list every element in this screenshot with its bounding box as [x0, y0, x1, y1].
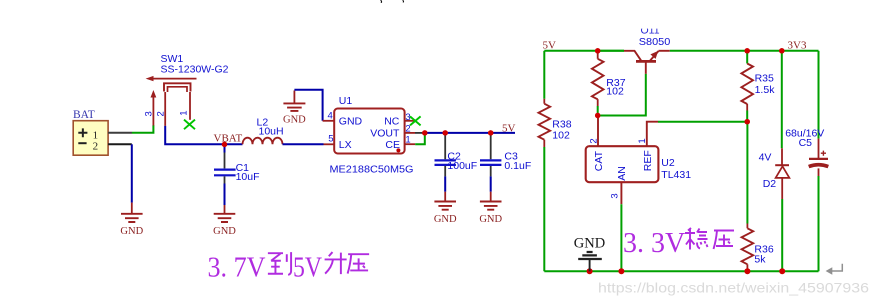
- svg-text:1: 1: [637, 138, 648, 143]
- wire 5V output: [425, 132, 515, 134]
- svg-text:GND: GND: [574, 236, 605, 252]
- capacitor C5 bottom lead: [818, 168, 820, 176]
- regulator U2 TL431 body: [586, 146, 659, 182]
- wire inductor to U1 LX: [283, 143, 324, 145]
- svg-text:TL431: TL431: [661, 169, 691, 181]
- capacitor C3 plates: [480, 160, 501, 165]
- U2 pin 2 CAT lead: [597, 116, 599, 147]
- svg-text:3V3: 3V3: [788, 39, 807, 51]
- hanzi ya (pressure) second: [714, 231, 735, 250]
- svg-text:GND: GND: [283, 114, 306, 125]
- inductor L2: [243, 138, 283, 145]
- U2 pin 3 AN lead: [620, 182, 622, 204]
- node C3 junction (top): [488, 130, 493, 135]
- junction dots top layer: [222, 48, 785, 147]
- node divider (top): [745, 119, 750, 124]
- wire R35 bottom to node: [746, 111, 748, 122]
- svg-text:CAT: CAT: [593, 150, 605, 171]
- capacitor C1 bottom lead: [224, 176, 226, 183]
- wire VBAT to inductor: [225, 143, 243, 145]
- wire BAT pin2 down to GND: [108, 143, 132, 145]
- wire R37 bottom to node: [597, 106, 599, 116]
- switch SW1 body inner bracket: [168, 87, 188, 92]
- svg-text:5k: 5k: [754, 253, 766, 265]
- svg-text:https://blog.csdn.net/weixin_4: https://blog.csdn.net/weixin_45907936: [598, 280, 869, 296]
- svg-text:REF: REF: [642, 150, 654, 171]
- svg-text:R35: R35: [755, 73, 774, 85]
- node D2 top: [779, 48, 784, 53]
- svg-text:GND: GND: [479, 214, 502, 225]
- wire GND to U1 pin 4: [294, 90, 322, 121]
- svg-text:5V: 5V: [543, 39, 557, 51]
- diode D2 cathode bar: [775, 164, 789, 166]
- node R37 top (top): [595, 48, 600, 53]
- svg-text:100uF: 100uF: [447, 160, 477, 172]
- switch SW1 actuator arrow: [153, 78, 197, 80]
- node D2 on rail: [779, 268, 785, 274]
- svg-text:3. 7V: 3. 7V: [208, 253, 266, 284]
- node R35 top (top): [745, 48, 750, 53]
- wire REF to divider node: [658, 121, 747, 123]
- svg-text:U2: U2: [661, 157, 675, 169]
- switch pin 2: [164, 92, 166, 126]
- switch SW1 body outer bracket: [164, 83, 191, 91]
- svg-text:3: 3: [143, 111, 154, 116]
- wire AN to bottom rail: [620, 204, 622, 271]
- return arrow mark: [831, 264, 843, 271]
- transistor Q1 base lead: [645, 61, 647, 73]
- wire bottom rail: [544, 270, 818, 272]
- wire node to transistor base: [598, 74, 646, 116]
- svg-text:3: 3: [610, 193, 621, 198]
- capacitor C5 plates: [809, 158, 828, 160]
- svg-text:5V: 5V: [293, 253, 322, 284]
- node VOUT junction: [422, 130, 427, 135]
- node R35/R36/REF: [745, 119, 750, 124]
- hanzi wen (stable): [685, 228, 708, 250]
- node R35 top: [745, 48, 750, 53]
- battery minus sign: [78, 142, 86, 144]
- svg-text:1: 1: [93, 129, 99, 141]
- capacitor C1 top lead: [224, 144, 226, 152]
- svg-text:GND: GND: [434, 214, 457, 225]
- svg-text:102: 102: [606, 86, 624, 98]
- capacitor C3 top lead: [490, 133, 492, 159]
- U2 pin 1 REF lead: [647, 122, 658, 147]
- wire R38 to bottom rail: [543, 147, 545, 271]
- svg-text:2: 2: [155, 111, 166, 116]
- hanzi ya (pressure) first: [348, 254, 370, 273]
- hanzi sheng (rise): [325, 252, 347, 274]
- capacitor C5 top lead: [818, 51, 820, 139]
- ground GND under C1: [224, 205, 226, 214]
- node C3 junction: [488, 130, 493, 135]
- svg-text:10uF: 10uF: [236, 171, 260, 183]
- hanzi dao (to): [268, 252, 291, 275]
- ground GND under C3: [490, 192, 492, 202]
- resistor R38: [543, 99, 545, 104]
- node D2 top (top): [779, 48, 784, 53]
- resistor R37: [597, 51, 599, 59]
- pin 5 stub: [324, 143, 335, 145]
- switch pin 1: [189, 92, 191, 120]
- transistor Q1 S8050 partial designator: [641, 25, 660, 37]
- capacitor C1 plates: [214, 170, 236, 176]
- svg-text:D2: D2: [763, 178, 777, 190]
- capacitor C3 bottom lead: [490, 166, 492, 176]
- svg-text:0.1uF: 0.1uF: [504, 160, 531, 172]
- wire switch pin2 to VBAT node: [165, 126, 224, 144]
- wire BAT pin1 to switch pin3: [108, 132, 132, 134]
- svg-text:NC: NC: [384, 116, 400, 128]
- svg-text:2: 2: [93, 141, 99, 153]
- capacitor C2 bottom lead: [444, 166, 446, 176]
- svg-text:S8050: S8050: [639, 36, 671, 48]
- svg-text:GND: GND: [120, 226, 143, 237]
- transistor Q1 base bar: [636, 60, 656, 63]
- resistor R35: [746, 51, 748, 64]
- wire 5V down to R38: [543, 51, 545, 99]
- cropped title descender marks: [380, 0, 382, 3]
- svg-text:4V: 4V: [759, 152, 772, 164]
- node VOUT junction (top): [422, 130, 427, 135]
- U1 pin 2 VOUT stub: [405, 132, 415, 134]
- node VBAT junction: [222, 142, 227, 147]
- svg-text:102: 102: [552, 129, 570, 141]
- node VBAT junction (top): [222, 142, 227, 147]
- svg-text:5V: 5V: [502, 122, 516, 134]
- battery BT body: [73, 121, 108, 156]
- diode D2 zener top lead: [781, 51, 783, 149]
- svg-text:1: 1: [179, 111, 190, 116]
- node AN on rail: [618, 268, 624, 274]
- svg-text:5: 5: [328, 134, 333, 145]
- U1 pin 3 stub: [405, 120, 416, 122]
- U1 CE marker dot: [396, 148, 400, 152]
- power GND earth symbol: [578, 252, 602, 259]
- battery plus sign: [78, 128, 87, 137]
- switch pin 3 with arrow: [152, 97, 154, 126]
- node R37 bottom (top): [595, 113, 600, 118]
- ground GND at U1 pin4: [293, 91, 295, 104]
- wire emitter to 3V3 rail: [670, 50, 819, 52]
- wire rail to collector: [598, 50, 624, 52]
- ground GND under battery: [131, 203, 133, 214]
- resistor R36: [746, 122, 748, 224]
- svg-text:1.5k: 1.5k: [755, 84, 776, 96]
- svg-text:AN: AN: [616, 166, 628, 181]
- transistor Q1 collector lead: [624, 51, 642, 61]
- svg-text:U1: U1: [339, 95, 353, 107]
- no-connect X on U1 pin 3: [410, 116, 421, 125]
- svg-text:GND: GND: [339, 116, 363, 128]
- pin 4 stub: [323, 120, 335, 122]
- diode D2 bottom lead: [781, 178, 783, 199]
- capacitor C5 plus sign: [821, 151, 826, 156]
- op-amp U1 ME2188 body: [334, 109, 404, 154]
- node GND on rail: [587, 268, 593, 274]
- node R36 on rail: [744, 268, 750, 274]
- svg-text:ME2188C50M5G: ME2188C50M5G: [330, 164, 414, 176]
- wire 5V rail: [544, 50, 624, 52]
- svg-text:VBAT: VBAT: [214, 132, 243, 144]
- node C2 junction: [443, 130, 448, 135]
- svg-text:C5: C5: [799, 137, 813, 149]
- svg-text:LX: LX: [339, 139, 352, 151]
- no-connect X on switch pin 1: [184, 120, 195, 130]
- U1 pin 1 CE stub: [405, 143, 416, 145]
- svg-text:VOUT: VOUT: [370, 128, 400, 140]
- transistor Q1 emitter lead with arrow: [650, 51, 659, 61]
- capacitor C2 plates: [435, 160, 456, 165]
- svg-text:BAT: BAT: [73, 109, 95, 121]
- node C2 junction (top): [443, 130, 448, 135]
- capacitor C2 top lead: [444, 133, 446, 159]
- caption 3.7V to 5V boost (magenta): [208, 253, 323, 284]
- svg-text:SS-1230W-G2: SS-1230W-G2: [161, 64, 229, 76]
- svg-text:10uH: 10uH: [259, 126, 284, 138]
- svg-text:4: 4: [328, 110, 333, 121]
- wire CE feedback green: [415, 133, 425, 144]
- node R37 top: [595, 48, 600, 53]
- svg-text:2: 2: [589, 138, 600, 143]
- node R37 bottom / CAT: [595, 113, 600, 118]
- ground GND under C2: [444, 192, 446, 202]
- diode D2 anode triangle: [776, 166, 790, 178]
- svg-text:3. 3V: 3. 3V: [623, 228, 685, 259]
- svg-text:GND: GND: [213, 226, 236, 237]
